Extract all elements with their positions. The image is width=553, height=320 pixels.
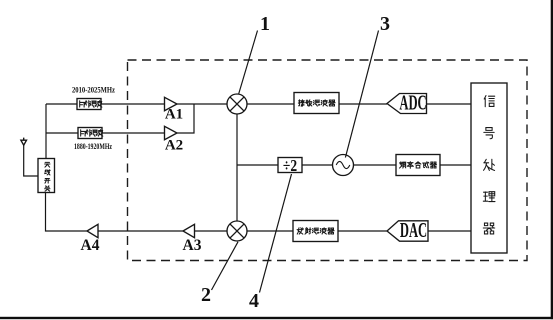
page right border — [551, 0, 553, 319]
value label 接收滤波器 — [298, 100, 335, 106]
value label 信号处理器 — [483, 96, 495, 234]
wire: filter2 to A2 — [102, 132, 165, 134]
wire: A3 to mixer2 — [195, 230, 228, 232]
duplexer switch box — [38, 159, 55, 193]
svg-text:÷2: ÷2 — [283, 158, 297, 175]
value label 片外滤波 — [81, 130, 103, 137]
oscillator — [333, 155, 354, 176]
wire: rx filter to ADC — [339, 103, 387, 105]
wire: filter1 to A1 — [101, 103, 165, 105]
mixer M1 — [227, 94, 247, 114]
divider box ÷2 — [278, 158, 302, 173]
wire: A1 to mixer1 — [177, 103, 227, 105]
page bottom border — [0, 317, 553, 319]
leader 4 — [260, 174, 292, 293]
wire: bus to filter2 — [46, 132, 78, 134]
switch label 关 — [45, 186, 50, 191]
wire: mixer1 down to mixer2 — [236, 114, 238, 221]
wire: left bus vertical top — [45, 104, 47, 159]
wire: mixer1 to rx filter — [247, 103, 294, 105]
svg-text:A1: A1 — [165, 107, 183, 123]
amplifier A1 — [165, 97, 178, 110]
DAC block — [387, 221, 428, 241]
svg-text:2010-2025MHz: 2010-2025MHz — [72, 85, 115, 94]
synthesizer box 频率合成器 — [396, 155, 440, 176]
svg-text:DAC: DAC — [400, 219, 427, 242]
svg-text:A2: A2 — [165, 138, 183, 154]
filter F1 box 片外滤波 — [77, 99, 101, 110]
leader 3 — [345, 31, 378, 158]
svg-text:A4: A4 — [81, 237, 100, 254]
amplifier A4 — [87, 224, 98, 237]
wire: synthesizer to signal processor — [440, 164, 471, 166]
wire: oscillator to synthesizer — [354, 164, 397, 166]
leader 2 — [212, 242, 239, 290]
svg-text:1: 1 — [260, 13, 270, 35]
wire: bus to filter1 — [46, 103, 77, 105]
dashed chip boundary — [128, 60, 528, 261]
wire: A2 joins A1 line — [177, 104, 194, 133]
switch label 开 — [45, 178, 50, 183]
switch label 天 — [45, 162, 50, 167]
value label 频率合成器 — [400, 162, 437, 169]
svg-text:A3: A3 — [183, 237, 202, 254]
rx filter box 接收滤波器 — [294, 93, 339, 114]
tx filter box 发射滤波器 — [293, 221, 338, 242]
filter F2 box 片外滤波 — [78, 128, 102, 139]
wire: tx filter to DAC — [338, 230, 387, 232]
svg-text:ADC: ADC — [399, 91, 426, 114]
svg-text:2: 2 — [201, 284, 211, 306]
wire: A4 to A3 — [98, 230, 183, 232]
value label 发射滤波器 — [297, 228, 334, 234]
value label 片外滤波 — [80, 101, 102, 108]
wire: divider to oscillator — [302, 164, 333, 166]
svg-text:4: 4 — [249, 290, 259, 312]
ADC block — [387, 94, 427, 114]
switch label 线 — [45, 170, 50, 175]
wire: mixer2 to tx filter — [247, 230, 293, 232]
amplifier A2 — [165, 126, 178, 139]
wire: antenna feed down — [24, 145, 38, 176]
wire: switch to bottom row — [46, 193, 88, 232]
amplifier A3 — [183, 224, 195, 237]
mixer M2 — [227, 221, 247, 241]
svg-text:3: 3 — [380, 13, 390, 35]
leader 1 — [239, 31, 258, 95]
wire: tap to divider — [237, 164, 278, 166]
signal processor box 信号处理器 — [471, 83, 507, 253]
wire: ADC to signal processor — [427, 103, 472, 105]
svg-text:1880-1920MHz: 1880-1920MHz — [74, 142, 112, 151]
antenna — [21, 138, 27, 146]
wire: DAC to signal processor — [428, 230, 471, 232]
